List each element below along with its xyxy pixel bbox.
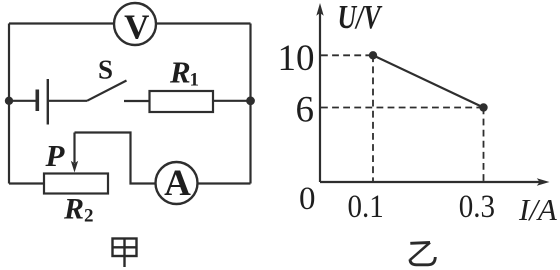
graph x-axis <box>320 178 550 185</box>
svg-text:10: 10 <box>278 38 315 79</box>
label yi (graph caption) <box>410 243 435 265</box>
svg-text:R: R <box>169 55 191 90</box>
dashed line: I=0.1 vertical <box>372 55 374 182</box>
svg-text:0.3: 0.3 <box>459 187 495 224</box>
battery cell: long plate <box>47 79 49 125</box>
wire: battery to switch pivot <box>48 100 87 102</box>
graph y-axis <box>316 3 323 182</box>
dashed line: I=0.3 vertical <box>483 108 485 183</box>
wire: top horizontal to voltmeter <box>9 22 251 24</box>
switch S blade <box>87 81 127 101</box>
svg-text:S: S <box>98 55 113 85</box>
label jia (circuit caption) <box>113 238 137 267</box>
data point (0.1,10) <box>369 51 377 59</box>
svg-text:6: 6 <box>296 89 315 130</box>
svg-text:U/V: U/V <box>338 0 384 36</box>
rheostat R2 body <box>44 174 108 194</box>
node: right junction dot <box>246 96 255 105</box>
svg-text:R: R <box>63 193 84 226</box>
voltmeter V <box>114 3 156 46</box>
dashed line: U=10 horizontal <box>321 54 373 56</box>
dashed line: U=6 horizontal <box>321 107 483 109</box>
label U/V <box>338 0 384 36</box>
wire: ammeter to right vertical <box>198 182 251 184</box>
svg-text:0.1: 0.1 <box>347 187 383 224</box>
wire: R1 to right node <box>213 100 251 102</box>
svg-text:2: 2 <box>84 206 94 227</box>
wire: slider up-right-down to ammeter <box>75 133 156 184</box>
svg-text:P: P <box>45 138 66 173</box>
battery cell: short plate <box>35 90 39 112</box>
label 0.3 <box>459 187 495 224</box>
svg-text:V: V <box>124 7 149 46</box>
svg-text:A: A <box>164 163 191 204</box>
wire: bottom left to rheostat <box>9 182 44 184</box>
data line from (0.1,10) to (0.3,6) <box>373 55 484 107</box>
svg-text:0: 0 <box>299 181 316 217</box>
wire: main middle from left node to battery <box>9 100 37 102</box>
wire: right vertical <box>249 24 251 184</box>
resistor R1 body <box>150 91 214 112</box>
switch right contact wire <box>124 100 150 102</box>
data point (0.3,6) <box>479 103 487 111</box>
ammeter A <box>156 162 198 204</box>
wire: top loop left vertical <box>8 24 10 184</box>
node: left junction dot <box>5 97 13 105</box>
rheostat slider arrow <box>71 133 78 173</box>
svg-text:1: 1 <box>190 70 200 91</box>
label 0.1 <box>347 187 383 224</box>
svg-text:I/A: I/A <box>518 192 558 227</box>
